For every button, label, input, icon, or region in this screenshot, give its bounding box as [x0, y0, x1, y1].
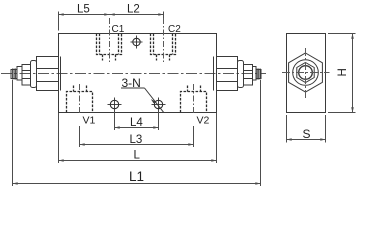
left screw washer	[17, 67, 22, 81]
side view centerlines	[282, 72, 330, 74]
svg-text:C1: C1	[112, 24, 125, 35]
mounting hole top	[131, 36, 143, 49]
dimension L4	[115, 112, 159, 131]
svg-text:L: L	[134, 149, 141, 161]
valve body (front view)	[59, 34, 217, 113]
svg-text:L3: L3	[130, 134, 143, 146]
side view locknut hexagon	[289, 53, 323, 92]
main horizontal centerline	[1, 73, 266, 75]
right screw tip	[256, 69, 261, 80]
right locknut	[244, 65, 253, 86]
port C2 (hidden thread)	[151, 34, 176, 61]
dimension L1	[13, 80, 261, 186]
dimension L	[59, 113, 217, 163]
left adjustment screw cap	[31, 57, 59, 91]
port C1 (hidden thread)	[97, 34, 122, 61]
dimension H	[328, 34, 356, 113]
left locknut	[22, 65, 31, 86]
svg-text:V1: V1	[83, 115, 96, 127]
port V2 (hidden thread)	[181, 86, 207, 113]
dimension L3	[80, 126, 194, 147]
label 3-N with leader	[121, 76, 164, 112]
right cavity seat line	[213, 57, 215, 91]
svg-text:L1: L1	[129, 169, 144, 184]
svg-text:S: S	[303, 127, 311, 141]
dimension S	[287, 115, 326, 143]
port C2 centerline	[163, 18, 165, 63]
svg-text:H: H	[337, 68, 349, 76]
right adjustment screw cap	[217, 57, 244, 91]
svg-text:L4: L4	[130, 117, 143, 129]
dimension L2	[110, 12, 164, 19]
left cavity seat line	[60, 57, 62, 91]
svg-text:L2: L2	[127, 4, 140, 16]
port V1 (hidden thread)	[67, 86, 93, 113]
left screw tip	[11, 69, 17, 80]
mounting hole bottom-right	[152, 98, 166, 112]
port V1 centerline	[79, 84, 81, 113]
svg-text:C2: C2	[168, 24, 181, 35]
port V2 centerline	[193, 84, 195, 113]
mounting hole bottom-left	[108, 98, 122, 112]
svg-text:V2: V2	[197, 115, 210, 127]
right screw washer	[253, 67, 257, 81]
side view body	[287, 34, 326, 113]
port C1 centerline	[109, 18, 111, 63]
svg-text:L5: L5	[77, 4, 90, 16]
dimension L5	[59, 12, 110, 31]
